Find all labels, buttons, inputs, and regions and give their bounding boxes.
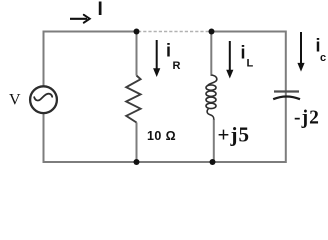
- svg-text:c: c: [320, 52, 326, 64]
- svg-text:10 Ω: 10 Ω: [147, 129, 176, 143]
- svg-text:I: I: [98, 0, 103, 20]
- svg-text:+j5: +j5: [218, 123, 250, 147]
- svg-text:R: R: [173, 60, 181, 72]
- svg-text:L: L: [247, 58, 254, 70]
- svg-text:i: i: [241, 43, 246, 63]
- svg-text:-j2: -j2: [294, 108, 320, 129]
- svg-text:i: i: [166, 41, 171, 61]
- svg-text:V: V: [9, 92, 21, 109]
